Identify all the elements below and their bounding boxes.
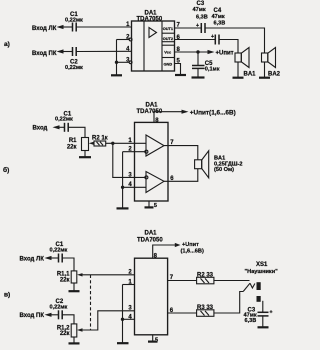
svg-text:GND: GND — [164, 62, 173, 67]
input label Вход ПК (a) — [32, 51, 57, 57]
svg-text:0,1мк: 0,1мк — [205, 67, 220, 73]
wiper arrow R1 (b) — [89, 142, 95, 145]
capacitor C4 (a) polarized — [211, 8, 225, 45]
svg-text:в): в) — [4, 291, 10, 298]
input label Вход ЛК (a) — [32, 26, 57, 32]
svg-text:Вход ПК: Вход ПК — [20, 313, 45, 319]
ground (C5) — [192, 76, 205, 78]
svg-text:R2 1к: R2 1к — [92, 136, 108, 142]
node pin4 junction — [121, 186, 124, 189]
capacitor C5 (a) — [192, 52, 220, 77]
op-amp IC DA1 TDA7050 (a) — [132, 21, 175, 71]
svg-text:Vcc: Vcc — [164, 50, 172, 55]
wire C2 to R1,2 — [62, 315, 74, 324]
svg-text:22к: 22к — [60, 277, 70, 283]
resistor R3 33 (v) — [197, 305, 214, 317]
IC label DA1 (v) — [137, 230, 163, 243]
pin numbers (v) — [128, 269, 173, 320]
capacitor C3 (v) polarized — [244, 301, 273, 327]
svg-text:R2 33: R2 33 — [197, 272, 214, 278]
section label b) — [3, 166, 9, 174]
wire pin5 ground (v) — [153, 335, 158, 344]
input label Вход (b) — [33, 125, 48, 131]
capacitor C2 (a) — [65, 47, 83, 71]
wire pin8 supply (v) — [153, 245, 176, 259]
svg-text:6,3В: 6,3В — [245, 318, 257, 324]
supply arrow +Uпит (v) — [175, 242, 204, 254]
svg-text:TDA7050: TDA7050 — [137, 17, 163, 23]
input arrow (a, left ch) — [57, 25, 73, 29]
svg-text:BA1: BA1 — [244, 72, 257, 78]
input arrow (b) — [53, 125, 65, 129]
svg-text:OUT2: OUT2 — [163, 36, 174, 41]
input arrow (v right) — [45, 313, 59, 317]
ground (b inputs) — [117, 207, 129, 209]
input arrow (v left) — [45, 256, 59, 260]
gang dashed line (dual pot) — [90, 275, 92, 330]
svg-text:DA1: DA1 — [145, 11, 158, 17]
svg-text:OUT1: OUT1 — [163, 26, 174, 31]
supply arrow +Uпит (a) — [208, 50, 234, 57]
svg-text:Вход ЛК: Вход ЛК — [32, 26, 57, 32]
ground (pin5 a) — [175, 74, 186, 76]
op-amp IC DA1 TDA7050 (v) — [135, 258, 168, 335]
op-amp triangle 1 (b) — [145, 135, 164, 156]
svg-text:+Uпит(1,6...6В): +Uпит(1,6...6В) — [190, 110, 236, 117]
svg-text:TDA7050: TDA7050 — [137, 237, 163, 243]
input arrow (a, right ch) — [57, 49, 73, 53]
wire pin2 — [123, 151, 145, 153]
resistor R2 (b) — [92, 136, 108, 146]
wire C1 to pin1 — [76, 26, 131, 28]
potentiometer R1 (b) — [67, 138, 89, 151]
speaker BA2 (a) — [262, 48, 281, 78]
node pin8/C5 junction — [196, 50, 199, 53]
svg-text:0,22мк: 0,22мк — [50, 304, 68, 310]
svg-text:Вход ПК: Вход ПК — [32, 51, 57, 57]
svg-text:0,22мк: 0,22мк — [50, 247, 68, 253]
IC label DA1 (b) — [137, 103, 163, 115]
node R2 junction — [111, 142, 114, 145]
svg-text:+: + — [270, 310, 273, 316]
jack XS1 contact 1 — [243, 283, 250, 291]
input label Вход ПК (v) — [20, 313, 45, 319]
wire pin6 to R3 (v) — [168, 312, 197, 314]
svg-text:6,3В: 6,3В — [196, 15, 208, 21]
svg-text:6,3В: 6,3В — [214, 21, 226, 27]
svg-text:0,22мк: 0,22мк — [65, 65, 83, 71]
wire C1 to R1,1 — [62, 258, 74, 271]
supply arrow +Uпит (b) — [182, 110, 236, 117]
wire C3 to BA2 — [205, 28, 265, 53]
wire pin6 to C4 — [175, 39, 216, 41]
resistor R2 33 (v) — [197, 272, 214, 284]
ground (pin5 b) — [145, 206, 154, 208]
pin numbers right (a) — [177, 23, 181, 65]
potentiometer R1,1 (v) — [57, 271, 77, 283]
svg-text:Вход: Вход — [33, 125, 48, 131]
svg-text:47мк: 47мк — [193, 7, 206, 13]
ground (R1,1) — [69, 283, 80, 291]
pin numbers (b) — [128, 138, 174, 188]
wire pin5 ground (b) — [149, 201, 157, 209]
ground (C3 jack) — [258, 326, 269, 328]
wire junction to pin3 — [113, 143, 145, 177]
node pin4 junction (v) — [121, 318, 124, 321]
svg-text:(50 Ом): (50 Ом) — [214, 167, 234, 173]
svg-text:а): а) — [4, 41, 10, 48]
jack XS1 contact 2 — [250, 283, 255, 288]
wire pin8 supply (b) — [154, 112, 182, 124]
svg-text:Вход ЛК: Вход ЛК — [20, 257, 45, 263]
wire pin7 to R2 (v) — [168, 280, 197, 282]
svg-text:(1,6...6В): (1,6...6В) — [181, 248, 204, 254]
wire pin8 supply — [175, 51, 209, 53]
svg-text:+Uпит: +Uпит — [216, 51, 234, 57]
wire pin1 ground net (v) — [123, 285, 135, 343]
svg-text:0,22мк: 0,22мк — [65, 17, 83, 23]
capacitor C3 (a) polarized — [193, 1, 208, 33]
capacitor C1 (a) — [65, 12, 83, 32]
svg-text:б): б) — [3, 166, 9, 174]
wire wiper2 to pin3 — [82, 311, 135, 330]
node pin2/pin3 junction — [115, 61, 118, 64]
svg-text:DA1: DA1 — [146, 103, 159, 109]
wire pin2 to pin4 to ground — [123, 152, 146, 208]
wiper arrow R1,2 — [77, 328, 83, 331]
svg-text:+Uпит: +Uпит — [182, 242, 199, 248]
wire C4 to BA1 — [219, 40, 238, 54]
op-amp IC DA1 TDA7050 (b) — [135, 122, 169, 201]
ground (BA2) — [259, 77, 270, 79]
capacitor C2 (v) — [50, 299, 68, 319]
wire C1 to R1 — [68, 127, 85, 137]
ground (R1 b) — [79, 151, 91, 158]
wiper arrow R1,1 — [77, 273, 83, 276]
svg-text:47мк: 47мк — [212, 14, 225, 20]
section label v) — [4, 291, 10, 298]
svg-text:DA1: DA1 — [145, 230, 158, 236]
speaker BA1 (b) — [195, 151, 243, 178]
wire pin3 — [117, 61, 133, 64]
svg-text:+: + — [211, 34, 214, 40]
wire R3 to jack — [214, 292, 243, 314]
IC label DA1 (a) — [137, 11, 163, 23]
wire pin2 ground net — [117, 38, 133, 62]
svg-text:XS1: XS1 — [256, 262, 268, 268]
op-amp triangle 2 (b) — [145, 172, 164, 193]
wire C2 to pin4 — [76, 50, 131, 52]
pin numbers left (a) — [126, 22, 130, 63]
wire wiper1 to pin2 — [82, 274, 135, 276]
wire pin7 to C3 — [175, 27, 202, 29]
ground (R1,2) — [69, 337, 80, 343]
svg-text:5: 5 — [154, 203, 157, 209]
svg-text:"Наушники": "Наушники" — [245, 269, 279, 275]
svg-text:22к: 22к — [60, 331, 70, 337]
jack XS1 plug bars — [245, 262, 279, 302]
wire R2 to pin1 — [106, 142, 146, 144]
input label Вход ЛК (v) — [20, 257, 45, 263]
svg-text:R3 33: R3 33 — [197, 305, 214, 311]
section label a) — [4, 41, 10, 48]
wire pin7 to speaker (b) — [164, 146, 198, 160]
wire pin6 to speaker (b) — [164, 169, 198, 182]
svg-text:0,22мк: 0,22мк — [55, 117, 73, 123]
potentiometer R1,2 (v) — [57, 324, 77, 337]
speaker BA1 (a) — [235, 48, 256, 78]
svg-text:R1: R1 — [69, 138, 77, 144]
ground (BA1) — [233, 77, 244, 79]
capacitor C1 (v) — [50, 242, 68, 263]
svg-text:+: + — [196, 23, 199, 29]
svg-text:22к: 22к — [67, 144, 77, 150]
ground (a inputs) — [111, 62, 122, 75]
wire pin5 to ground — [175, 64, 181, 75]
ground (v inputs) — [117, 342, 129, 344]
ground (pin5 v) — [148, 341, 158, 343]
capacitor C1 (b) — [55, 111, 73, 132]
wire R2 to jack — [214, 280, 250, 282]
